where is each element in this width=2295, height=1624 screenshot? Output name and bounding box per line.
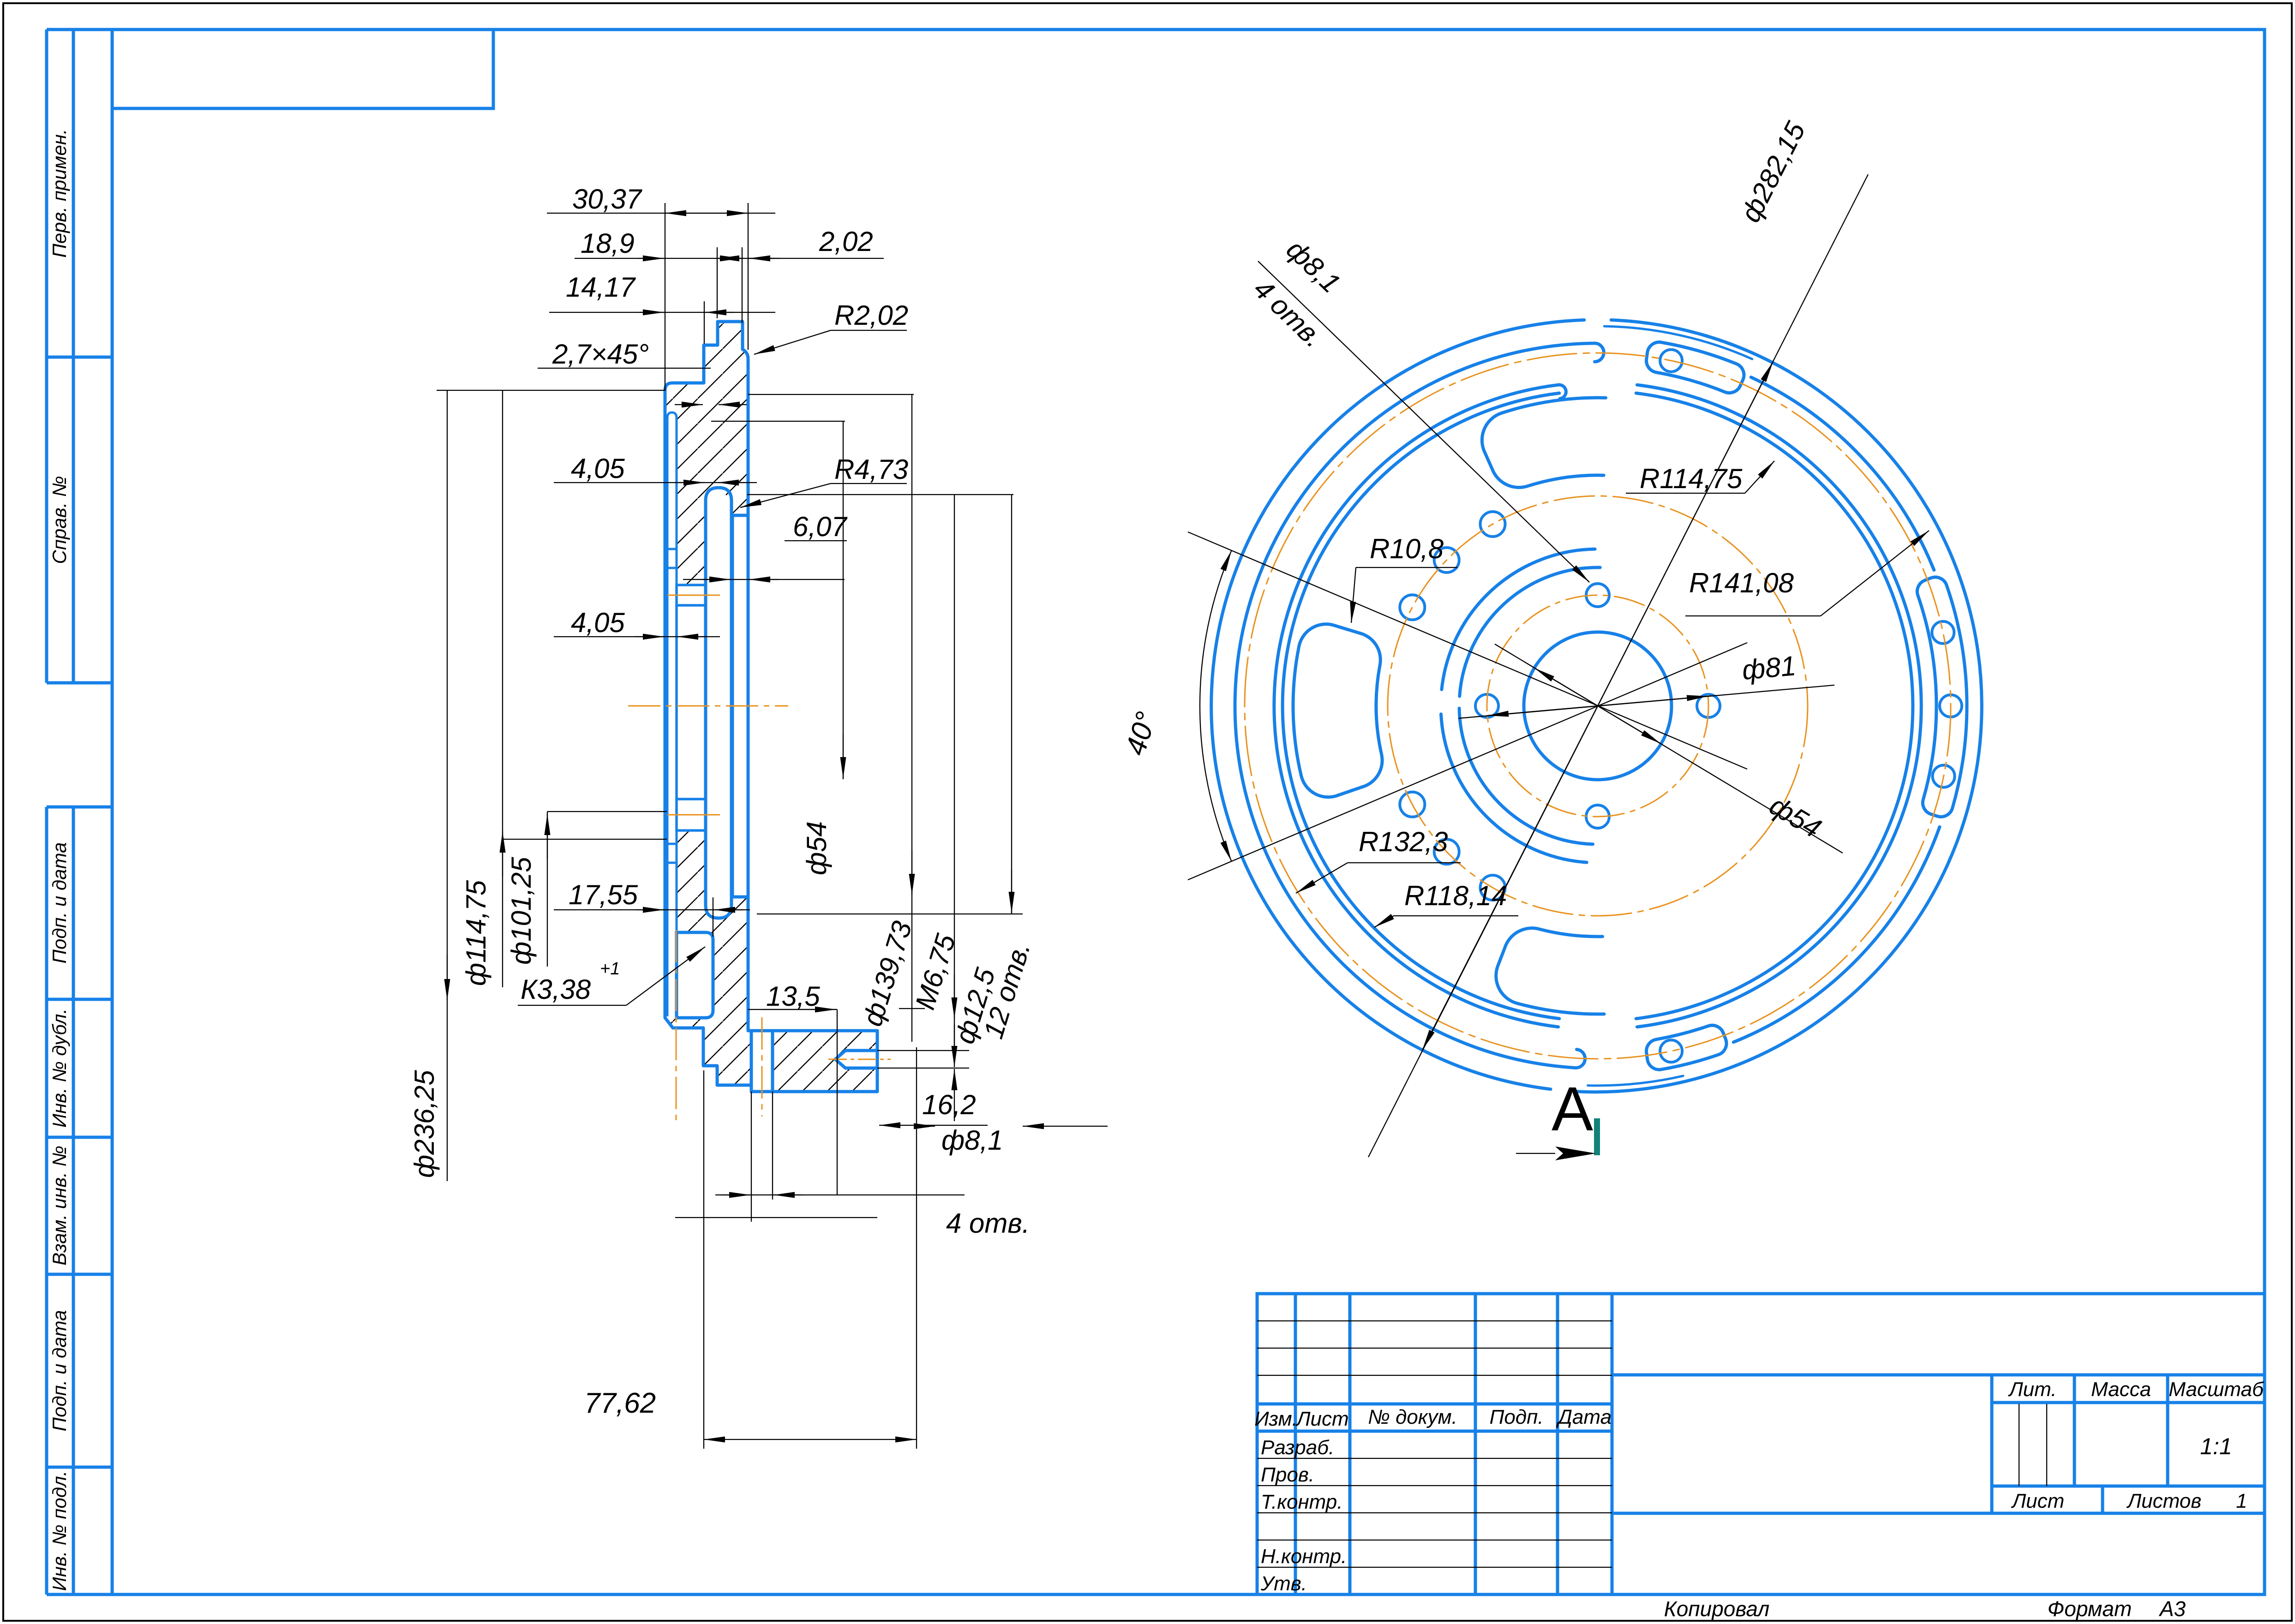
dim 4,05 lower (groove width)	[554, 636, 720, 637]
svg-text:R10,8: R10,8	[1370, 533, 1444, 564]
svg-text:Изм.: Изм.	[1254, 1408, 1298, 1430]
dim 30,37	[665, 203, 665, 390]
svg-text:Подп. и дата: Подп. и дата	[48, 842, 70, 964]
dia 282,15 line	[1368, 174, 1868, 1157]
svg-text:+1: +1	[600, 959, 620, 979]
svg-text:Копировал: Копировал	[1664, 1597, 1770, 1621]
right bore band	[731, 515, 734, 897]
dim 18,9	[717, 247, 718, 318]
dim 2,02	[742, 247, 743, 323]
rim pads	[1646, 342, 1744, 393]
svg-text:17,55: 17,55	[569, 879, 638, 910]
svg-text:Т.контр.: Т.контр.	[1261, 1491, 1343, 1513]
dim 14,17	[704, 301, 705, 344]
orange pitch circles	[1487, 595, 1708, 817]
svg-text:Утв.: Утв.	[1260, 1572, 1307, 1595]
svg-text:Лит.: Лит.	[2007, 1378, 2056, 1401]
svg-text:Н.контр.: Н.контр.	[1261, 1545, 1347, 1568]
hub vertical hole walls	[750, 1031, 753, 1092]
svg-text:Подп. и дата: Подп. и дата	[48, 1310, 70, 1432]
leader R4,73	[740, 484, 831, 507]
svg-text:№ докум.: № докум.	[1368, 1406, 1457, 1428]
svg-text:ф8,1: ф8,1	[941, 1125, 1003, 1156]
svg-text:ф81: ф81	[1741, 650, 1797, 686]
dia 236,25 vertical	[437, 390, 665, 391]
svg-text:2,7×45°: 2,7×45°	[552, 339, 649, 370]
leader K3,38	[518, 1005, 626, 1006]
R455 circle holes	[1480, 512, 1505, 537]
svg-text:14,17: 14,17	[566, 272, 636, 303]
svg-text:4 отв.: 4 отв.	[946, 1208, 1030, 1239]
svg-text:Перв. примен.: Перв. примен.	[48, 129, 70, 257]
hub step arcs R300/R340	[1459, 708, 1593, 844]
svg-text:Пров.: Пров.	[1261, 1463, 1314, 1486]
dim 13,5	[837, 1009, 838, 1195]
40 degree dimension	[1188, 532, 1747, 769]
dia 81 line	[1458, 685, 1834, 718]
leader ф8,1 4 otv (top-left)	[1258, 261, 1589, 582]
view arrow	[1555, 1146, 1596, 1160]
dim hub hole ф8,1	[920, 1126, 935, 1127]
svg-text:Инв. № подл.: Инв. № подл.	[48, 1471, 70, 1591]
inner ring R701	[1637, 385, 1921, 1027]
section outer outline	[665, 322, 877, 1092]
svg-text:R132,3: R132,3	[1359, 826, 1448, 857]
dia 139,73 vertical	[748, 394, 914, 395]
svg-text:77,62: 77,62	[584, 1387, 656, 1419]
svg-text:А: А	[1552, 1074, 1593, 1144]
svg-text:30,37: 30,37	[572, 184, 643, 215]
svg-text:16,2: 16,2	[922, 1089, 976, 1120]
svg-text:18,9: 18,9	[581, 228, 635, 259]
dia 12 otv vertical	[1011, 495, 1012, 914]
dim 2,7x45	[538, 368, 711, 369]
ф81 circle holes	[1586, 584, 1609, 607]
top-left stamp rectangle	[112, 30, 493, 108]
bore circle ф54	[1524, 632, 1672, 780]
left wall notches	[665, 548, 677, 550]
svg-text:R114,75: R114,75	[1640, 463, 1743, 494]
svg-text:Разраб.: Разраб.	[1261, 1436, 1334, 1459]
svg-text:К3,38: К3,38	[521, 974, 591, 1005]
dia 54 line	[1495, 644, 1843, 853]
svg-text:Лист: Лист	[1295, 1408, 1348, 1430]
svg-text:Лист: Лист	[2011, 1490, 2064, 1512]
svg-text:1: 1	[2236, 1490, 2247, 1512]
svg-text:Взам. инв. №: Взам. инв. №	[48, 1146, 70, 1266]
left margin column strips	[45, 30, 48, 683]
windows (disc cutouts)	[1482, 398, 1606, 488]
dim 6,07	[683, 579, 845, 580]
svg-text:1:1: 1:1	[2200, 1433, 2232, 1459]
keyway slots	[677, 585, 706, 605]
svg-text:Подп.: Подп.	[1489, 1406, 1543, 1428]
svg-text:ф236,25: ф236,25	[409, 1070, 440, 1178]
section centerlines (orange)	[628, 705, 788, 707]
hub drilled hole ф8,1	[835, 1051, 877, 1068]
svg-text:Формат: Формат	[2048, 1597, 2132, 1621]
svg-text:ф114,75: ф114,75	[461, 880, 491, 986]
svg-text:R2,02: R2,02	[834, 300, 908, 331]
dia 114,75 vertical	[502, 390, 503, 987]
dia 101,25 vertical	[547, 812, 548, 967]
section hatching	[665, 322, 877, 1092]
svg-text:Листов: Листов	[2126, 1490, 2201, 1512]
left annular groove	[667, 412, 677, 1016]
svg-text:Масса: Масса	[2091, 1378, 2151, 1401]
svg-text:R4,73: R4,73	[834, 454, 908, 485]
svg-text:ф54: ф54	[801, 821, 832, 875]
ring arc end hooks	[1594, 343, 1604, 362]
gap stub arcs	[1604, 326, 1752, 359]
dim 17,55	[713, 897, 713, 937]
dim 4 otv bottom	[751, 1092, 752, 1222]
ring R786	[1751, 377, 1934, 570]
svg-text:Масштаб: Масштаб	[2169, 1378, 2265, 1401]
dim 4,05 upper	[554, 482, 757, 483]
svg-text:R118,14: R118,14	[1404, 880, 1507, 911]
svg-text:ф101,25: ф101,25	[506, 857, 537, 965]
inner ring R681	[1636, 393, 1913, 1019]
svg-text:4,05: 4,05	[571, 453, 625, 484]
svg-text:Инв. № дубл.: Инв. № дубл.	[48, 1009, 70, 1128]
svg-text:Дата: Дата	[1556, 1406, 1612, 1428]
svg-text:Справ. №: Справ. №	[48, 476, 70, 564]
outer circle R837	[1577, 320, 1982, 1092]
svg-text:2,02: 2,02	[819, 226, 873, 257]
M6,75 vertical	[747, 494, 1013, 495]
title block	[1257, 1294, 2265, 1594]
dim 77,62	[703, 1070, 704, 1449]
svg-text:13,5: 13,5	[766, 981, 820, 1012]
rim holes ф8,1	[1660, 350, 1682, 372]
dim 16,2	[877, 1050, 969, 1051]
svg-text:6,07: 6,07	[793, 511, 848, 542]
central annular groove	[706, 488, 731, 918]
svg-text:R141,08: R141,08	[1689, 567, 1794, 598]
M6,75 threaded hole slot	[677, 932, 713, 1018]
leader R2,02	[754, 330, 831, 354]
dia 54 vertical	[711, 421, 845, 422]
svg-text:А3: А3	[2158, 1597, 2186, 1621]
svg-text:4,05: 4,05	[571, 607, 625, 638]
